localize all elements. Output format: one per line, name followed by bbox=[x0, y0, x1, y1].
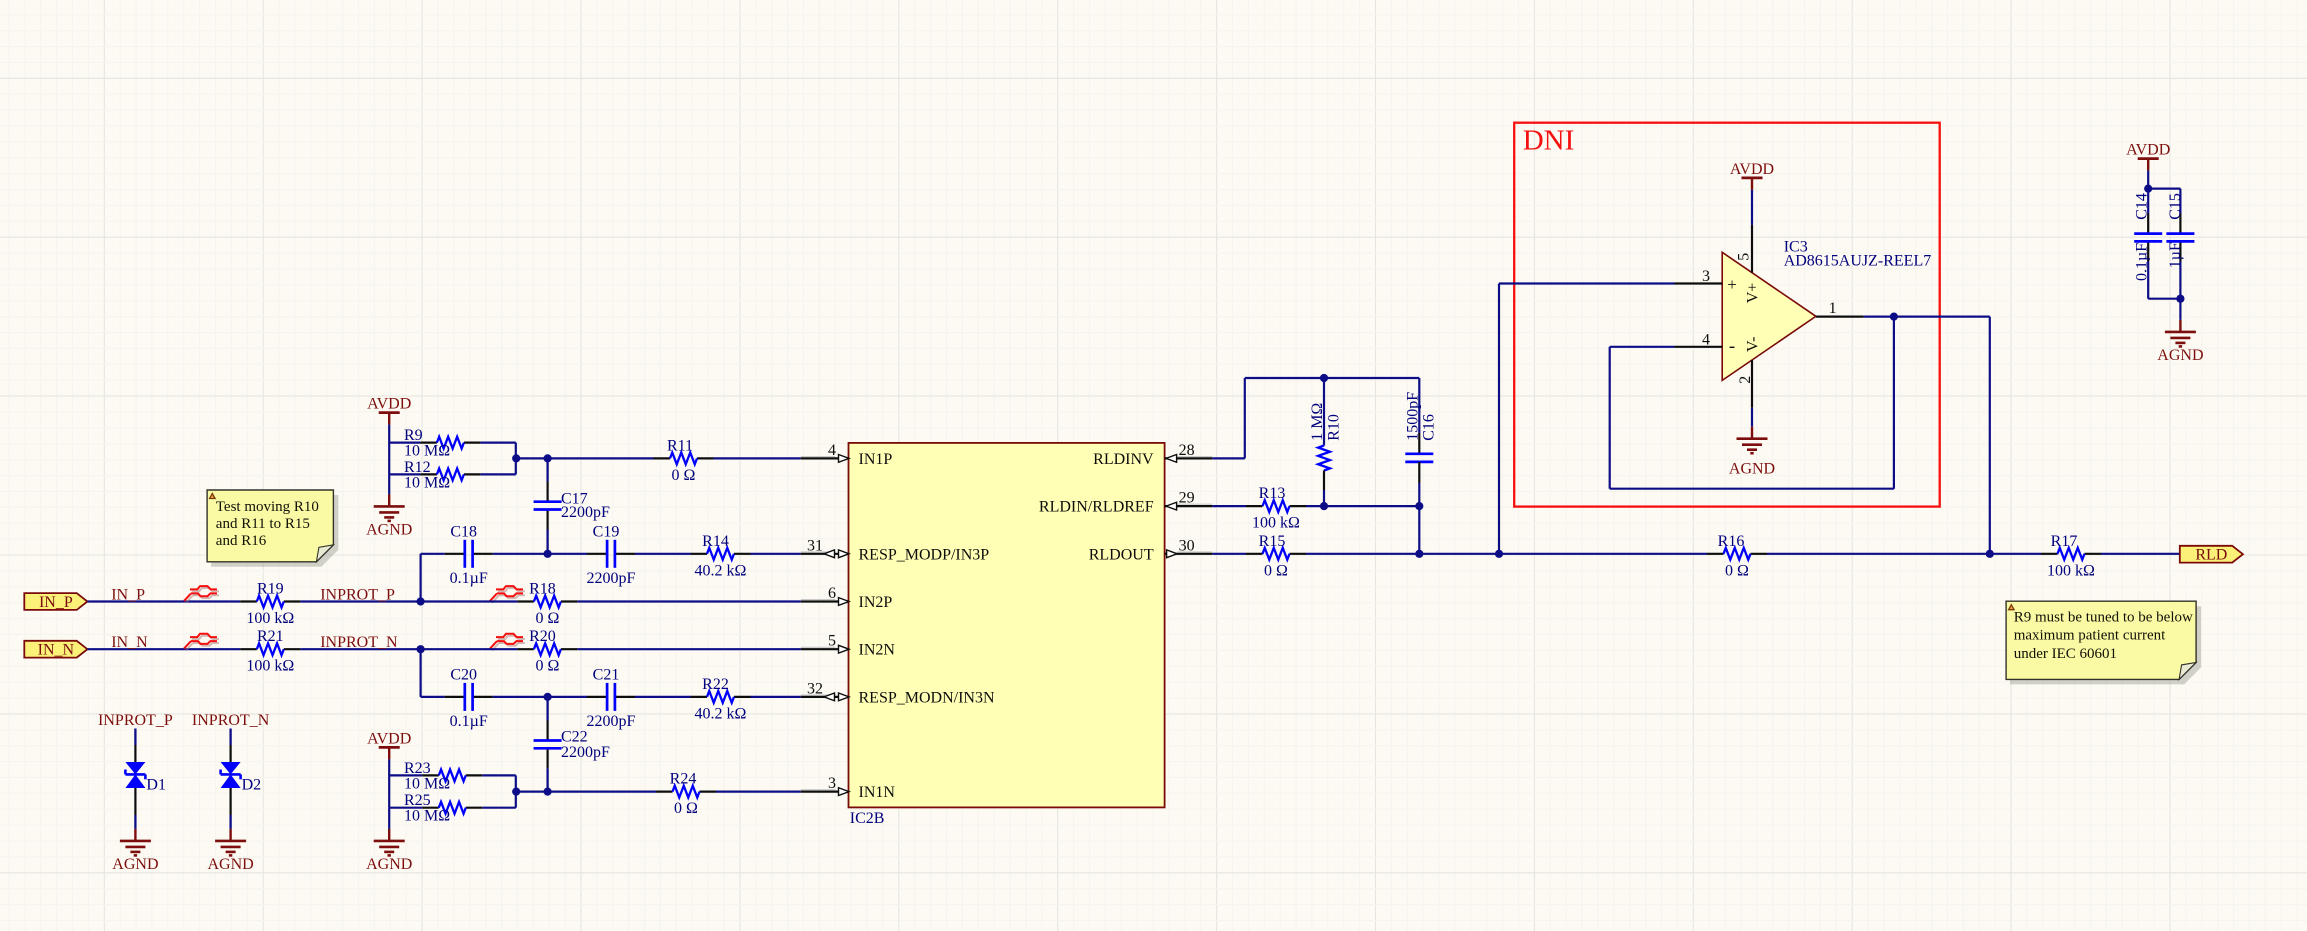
svg-text:0 Ω: 0 Ω bbox=[672, 467, 696, 484]
svg-text:1 MΩ: 1 MΩ bbox=[1309, 403, 1326, 441]
svg-text:R10: R10 bbox=[1326, 414, 1343, 441]
svg-text:D1: D1 bbox=[146, 776, 166, 793]
svg-text:C16: C16 bbox=[1421, 414, 1438, 441]
svg-text:2200pF: 2200pF bbox=[587, 713, 636, 730]
svg-text:R18: R18 bbox=[529, 581, 556, 598]
svg-text:5: 5 bbox=[1736, 253, 1753, 261]
svg-text:10 MΩ: 10 MΩ bbox=[404, 775, 450, 792]
svg-text:1500pF: 1500pF bbox=[1405, 392, 1422, 441]
svg-text:R13: R13 bbox=[1259, 485, 1286, 502]
svg-text:10 MΩ: 10 MΩ bbox=[404, 808, 450, 825]
svg-text:0.1µF: 0.1µF bbox=[450, 570, 488, 587]
svg-text:and R11 to R15: and R11 to R15 bbox=[216, 516, 310, 532]
svg-text:R12: R12 bbox=[404, 459, 431, 476]
svg-text:C22: C22 bbox=[561, 728, 588, 745]
svg-text:0 Ω: 0 Ω bbox=[535, 658, 559, 675]
svg-text:AD8615AUJZ-REEL7: AD8615AUJZ-REEL7 bbox=[1784, 253, 1932, 270]
svg-text:R23: R23 bbox=[404, 760, 431, 777]
svg-text:IN_P: IN_P bbox=[39, 594, 73, 611]
svg-text:40.2 kΩ: 40.2 kΩ bbox=[695, 705, 747, 722]
svg-text:IN_P: IN_P bbox=[111, 587, 145, 604]
svg-text:2200pF: 2200pF bbox=[561, 504, 610, 521]
svg-text:R24: R24 bbox=[670, 771, 697, 788]
svg-text:10 MΩ: 10 MΩ bbox=[404, 474, 450, 491]
svg-text:0 Ω: 0 Ω bbox=[535, 610, 559, 627]
svg-text:AVDD: AVDD bbox=[367, 730, 411, 747]
svg-text:3: 3 bbox=[828, 775, 836, 792]
svg-text:6: 6 bbox=[828, 585, 836, 602]
svg-text:2200pF: 2200pF bbox=[587, 570, 636, 587]
svg-text:IN1N: IN1N bbox=[859, 784, 896, 801]
svg-text:AVDD: AVDD bbox=[1730, 161, 1774, 178]
svg-text:RLDIN/RLDREF: RLDIN/RLDREF bbox=[1039, 499, 1154, 516]
svg-text:RLDINV: RLDINV bbox=[1093, 451, 1154, 468]
svg-text:AVDD: AVDD bbox=[367, 396, 411, 413]
svg-text:R9: R9 bbox=[404, 427, 423, 444]
svg-text:IN2P: IN2P bbox=[859, 594, 893, 611]
svg-text:IN_N: IN_N bbox=[38, 642, 75, 659]
svg-text:R20: R20 bbox=[529, 628, 556, 645]
svg-text:0 Ω: 0 Ω bbox=[1725, 562, 1749, 579]
svg-text:R19: R19 bbox=[257, 581, 284, 598]
svg-text:100 kΩ: 100 kΩ bbox=[1252, 515, 1300, 532]
svg-text:AGND: AGND bbox=[366, 856, 412, 873]
svg-text:under IEC 60601: under IEC 60601 bbox=[2014, 646, 2117, 662]
svg-text:INPROT_P: INPROT_P bbox=[98, 712, 173, 729]
svg-text:AGND: AGND bbox=[207, 856, 253, 873]
svg-text:AGND: AGND bbox=[112, 856, 158, 873]
svg-text:RLD: RLD bbox=[2195, 547, 2227, 564]
svg-text:AGND: AGND bbox=[2157, 347, 2203, 364]
svg-text:AGND: AGND bbox=[1729, 461, 1775, 478]
svg-text:R17: R17 bbox=[2051, 533, 2078, 550]
svg-text:C15: C15 bbox=[2167, 193, 2184, 220]
svg-text:IN_N: IN_N bbox=[111, 634, 148, 651]
svg-text:IC2B: IC2B bbox=[850, 810, 885, 827]
svg-text:R21: R21 bbox=[257, 628, 284, 645]
svg-text:R15: R15 bbox=[1259, 533, 1286, 550]
svg-text:DNI: DNI bbox=[1523, 125, 1575, 157]
svg-text:1: 1 bbox=[1829, 300, 1837, 317]
svg-text:5: 5 bbox=[828, 633, 836, 650]
svg-text:C21: C21 bbox=[593, 666, 620, 683]
svg-text:R16: R16 bbox=[1718, 533, 1745, 550]
svg-text:31: 31 bbox=[807, 537, 823, 554]
svg-text:V+: V+ bbox=[1745, 283, 1762, 304]
svg-text:C14: C14 bbox=[2134, 193, 2151, 220]
svg-text:100 kΩ: 100 kΩ bbox=[246, 610, 294, 627]
svg-text:D2: D2 bbox=[242, 776, 262, 793]
svg-text:C20: C20 bbox=[450, 666, 477, 683]
svg-text:40.2 kΩ: 40.2 kΩ bbox=[695, 562, 747, 579]
svg-text:and R16: and R16 bbox=[216, 533, 267, 549]
svg-text:INPROT_P: INPROT_P bbox=[320, 587, 395, 604]
svg-text:0.1µF: 0.1µF bbox=[2134, 243, 2151, 281]
svg-text:AVDD: AVDD bbox=[2126, 142, 2170, 159]
svg-text:R9 must be tuned to be below: R9 must be tuned to be below bbox=[2014, 609, 2193, 625]
svg-text:2200pF: 2200pF bbox=[561, 744, 610, 761]
svg-text:AGND: AGND bbox=[366, 521, 412, 538]
svg-text:1µF: 1µF bbox=[2167, 242, 2184, 268]
svg-text:10 MΩ: 10 MΩ bbox=[404, 443, 450, 460]
svg-text:IN1P: IN1P bbox=[859, 451, 893, 468]
svg-text:C19: C19 bbox=[593, 523, 620, 540]
svg-text:R25: R25 bbox=[404, 792, 431, 809]
svg-text:INPROT_N: INPROT_N bbox=[320, 634, 398, 651]
svg-text:30: 30 bbox=[1179, 537, 1195, 554]
svg-text:Test moving R10: Test moving R10 bbox=[216, 499, 319, 515]
svg-text:IN2N: IN2N bbox=[859, 642, 896, 659]
svg-text:0.1µF: 0.1µF bbox=[450, 713, 488, 730]
svg-text:4: 4 bbox=[1702, 331, 1710, 348]
svg-text:100 kΩ: 100 kΩ bbox=[246, 658, 294, 675]
svg-text:4: 4 bbox=[828, 442, 836, 459]
svg-text:28: 28 bbox=[1179, 442, 1195, 459]
svg-text:2: 2 bbox=[1737, 376, 1754, 384]
svg-text:R11: R11 bbox=[667, 437, 693, 454]
svg-text:C18: C18 bbox=[450, 523, 477, 540]
svg-text:INPROT_N: INPROT_N bbox=[192, 712, 270, 729]
svg-text:maximum patient current: maximum patient current bbox=[2014, 628, 2166, 644]
svg-text:R22: R22 bbox=[702, 676, 729, 693]
svg-text:3: 3 bbox=[1702, 268, 1710, 285]
svg-text:32: 32 bbox=[807, 680, 823, 697]
svg-text:-: - bbox=[1729, 336, 1735, 357]
svg-text:V-: V- bbox=[1745, 337, 1762, 352]
svg-text:RESP_MODN/IN3N: RESP_MODN/IN3N bbox=[859, 689, 995, 706]
svg-text:29: 29 bbox=[1179, 490, 1195, 507]
svg-text:+: + bbox=[1727, 275, 1737, 294]
svg-text:100 kΩ: 100 kΩ bbox=[2047, 562, 2095, 579]
svg-text:RLDOUT: RLDOUT bbox=[1089, 546, 1154, 563]
svg-text:0 Ω: 0 Ω bbox=[1264, 562, 1288, 579]
svg-text:0 Ω: 0 Ω bbox=[674, 800, 698, 817]
svg-text:R14: R14 bbox=[702, 533, 729, 550]
svg-text:RESP_MODP/IN3P: RESP_MODP/IN3P bbox=[859, 546, 990, 563]
